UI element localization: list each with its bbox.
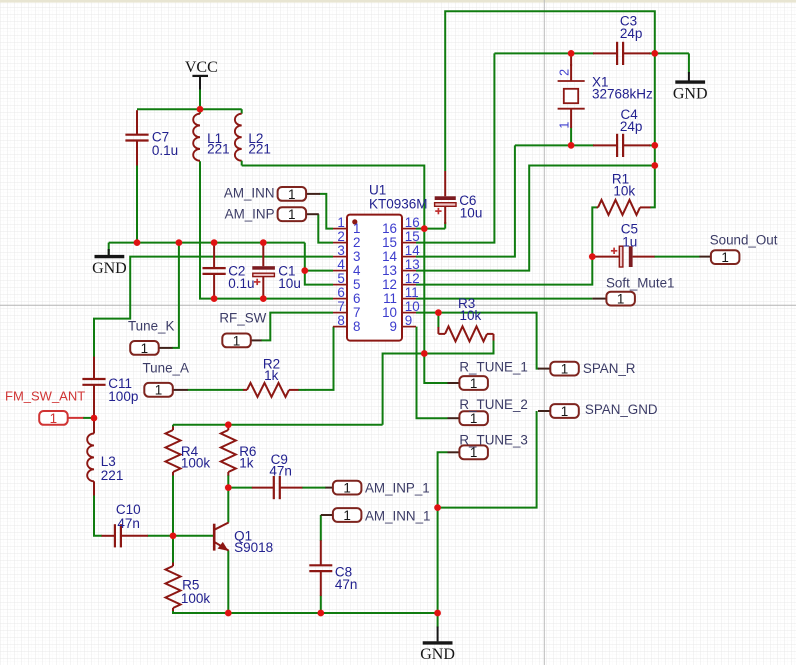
svg-text:3: 3 (353, 249, 360, 264)
svg-text:KT0936M: KT0936M (369, 196, 428, 211)
svg-text:3: 3 (337, 243, 344, 258)
svg-text:1: 1 (141, 341, 149, 356)
svg-text:R_TUNE_1: R_TUNE_1 (459, 360, 527, 375)
svg-text:1: 1 (155, 383, 163, 398)
svg-text:GND: GND (673, 85, 708, 102)
svg-text:16: 16 (405, 215, 420, 230)
svg-text:2: 2 (337, 229, 344, 244)
svg-text:1: 1 (337, 215, 344, 230)
svg-text:5: 5 (353, 277, 360, 292)
svg-text:9: 9 (390, 319, 397, 334)
svg-text:32768kHz: 32768kHz (592, 87, 653, 102)
svg-text:Tune_K: Tune_K (128, 319, 174, 334)
svg-text:15: 15 (405, 229, 420, 244)
svg-text:221: 221 (248, 141, 271, 156)
svg-text:0.1u: 0.1u (228, 276, 254, 291)
svg-text:10u: 10u (278, 276, 301, 291)
svg-text:100k: 100k (181, 591, 211, 606)
svg-text:10k: 10k (613, 184, 635, 199)
svg-text:1: 1 (470, 445, 478, 460)
svg-text:1: 1 (721, 250, 729, 265)
svg-text:AM_INN: AM_INN (224, 186, 275, 201)
svg-text:1: 1 (470, 376, 478, 391)
svg-text:1: 1 (343, 508, 351, 523)
svg-text:0.1u: 0.1u (152, 143, 178, 158)
svg-text:1: 1 (233, 333, 241, 348)
svg-text:GND: GND (92, 260, 127, 277)
svg-text:SPAN_R: SPAN_R (583, 361, 636, 376)
svg-text:8: 8 (353, 319, 360, 334)
svg-text:1: 1 (343, 481, 351, 496)
svg-text:11: 11 (405, 285, 419, 300)
svg-text:4: 4 (353, 263, 361, 278)
svg-text:C10: C10 (116, 502, 141, 517)
svg-text:9: 9 (405, 313, 412, 328)
svg-text:12: 12 (382, 277, 397, 292)
svg-text:24p: 24p (620, 119, 643, 134)
svg-text:SPAN_GND: SPAN_GND (585, 402, 658, 417)
svg-text:1: 1 (617, 292, 625, 307)
svg-text:1k: 1k (264, 368, 279, 383)
svg-text:GND: GND (420, 646, 455, 663)
svg-text:221: 221 (101, 468, 124, 483)
svg-text:R_TUNE_2: R_TUNE_2 (459, 397, 527, 412)
svg-text:1: 1 (50, 411, 58, 426)
svg-text:14: 14 (405, 243, 420, 258)
svg-text:10: 10 (382, 305, 397, 320)
svg-text:FM_SW_ANT: FM_SW_ANT (5, 389, 85, 404)
svg-text:6: 6 (353, 291, 360, 306)
svg-text:100p: 100p (108, 389, 138, 404)
svg-text:12: 12 (405, 271, 420, 286)
svg-text:AM_INN_1: AM_INN_1 (365, 508, 431, 523)
svg-text:AM_INP: AM_INP (225, 206, 275, 221)
svg-text:47n: 47n (335, 577, 358, 592)
svg-text:4: 4 (337, 257, 345, 272)
svg-text:1: 1 (288, 207, 296, 222)
svg-text:RF_SW: RF_SW (219, 311, 266, 326)
svg-text:VCC: VCC (185, 59, 218, 76)
svg-text:11: 11 (383, 291, 397, 306)
svg-text:1u: 1u (622, 234, 637, 249)
svg-text:S9018: S9018 (234, 540, 273, 555)
svg-text:1: 1 (561, 404, 569, 419)
svg-text:7: 7 (337, 299, 344, 314)
svg-text:1: 1 (353, 221, 360, 236)
svg-text:7: 7 (353, 305, 360, 320)
svg-text:2: 2 (353, 235, 360, 250)
svg-text:10k: 10k (460, 308, 482, 323)
svg-text:L3: L3 (101, 454, 116, 469)
svg-text:U1: U1 (369, 183, 386, 198)
svg-text:100k: 100k (181, 455, 211, 470)
svg-text:1: 1 (561, 362, 569, 377)
svg-text:1: 1 (470, 411, 478, 426)
svg-text:5: 5 (337, 271, 344, 286)
svg-text:Sound_Out: Sound_Out (710, 233, 778, 248)
svg-text:8: 8 (337, 313, 344, 328)
svg-text:13: 13 (405, 257, 420, 272)
svg-text:2: 2 (557, 69, 571, 76)
svg-text:R_TUNE_3: R_TUNE_3 (459, 432, 527, 447)
svg-text:16: 16 (382, 221, 397, 236)
svg-text:13: 13 (382, 263, 397, 278)
svg-text:1k: 1k (239, 455, 254, 470)
svg-text:24p: 24p (620, 26, 643, 41)
svg-text:10u: 10u (460, 206, 483, 221)
svg-text:15: 15 (382, 235, 397, 250)
svg-text:47n: 47n (117, 516, 140, 531)
svg-text:47n: 47n (269, 464, 292, 479)
svg-text:14: 14 (382, 249, 397, 264)
svg-text:10: 10 (405, 299, 420, 314)
svg-text:AM_INP_1: AM_INP_1 (365, 480, 430, 495)
svg-text:1: 1 (557, 122, 571, 129)
svg-text:1: 1 (288, 187, 296, 202)
svg-text:Soft_Mute1: Soft_Mute1 (606, 276, 674, 291)
svg-text:6: 6 (337, 285, 344, 300)
svg-text:Tune_A: Tune_A (143, 361, 189, 376)
svg-text:221: 221 (207, 141, 230, 156)
